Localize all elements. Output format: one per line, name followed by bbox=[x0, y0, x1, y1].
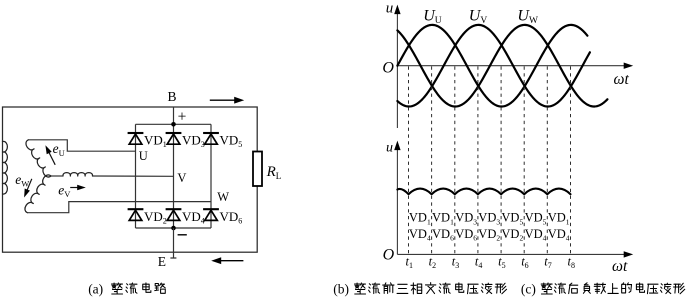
current arrow top (rightward) bbox=[210, 99, 238, 101]
diode VD1 (top-left) bbox=[128, 132, 144, 134]
svg-text:t4: t4 bbox=[475, 255, 482, 271]
svg-text:ωt: ωt bbox=[612, 258, 628, 275]
plot c y-axis arrow bbox=[394, 141, 400, 151]
svg-text:VD4: VD4 bbox=[409, 227, 431, 243]
svg-text:UV: UV bbox=[469, 8, 488, 27]
current arrow bottom (leftward) bbox=[218, 260, 244, 262]
svg-text:eW: eW bbox=[15, 172, 29, 189]
svg-text:RL: RL bbox=[266, 164, 282, 181]
dashed line t2 bbox=[431, 66, 433, 253]
svg-text:eU: eU bbox=[53, 141, 65, 158]
svg-text:t3: t3 bbox=[452, 255, 459, 271]
secondary winding U phase bbox=[26, 140, 51, 177]
svg-text:t5: t5 bbox=[498, 255, 505, 271]
svg-text:t8: t8 bbox=[568, 255, 575, 271]
svg-text:VD5: VD5 bbox=[501, 211, 523, 227]
plot b y-axis arrow bbox=[394, 5, 400, 15]
junction dot - rail bbox=[171, 226, 176, 231]
wire bridge middle column bbox=[173, 124, 175, 228]
svg-text:VD2: VD2 bbox=[144, 209, 167, 226]
secondary winding V phase bbox=[63, 173, 93, 176]
dashed line t7 bbox=[546, 66, 548, 253]
plot b y-axis bbox=[396, 11, 398, 128]
diode VD3 (top-middle) bbox=[166, 132, 182, 134]
svg-text:VD4: VD4 bbox=[525, 227, 547, 243]
wire W phase to bridge bbox=[27, 202, 211, 213]
svg-text:U: U bbox=[139, 149, 148, 163]
svg-text:B: B bbox=[168, 89, 177, 104]
dashed line t5 bbox=[500, 66, 502, 253]
rectified output waveform bbox=[397, 189, 570, 195]
svg-text:t6: t6 bbox=[521, 255, 528, 271]
svg-text:VD1: VD1 bbox=[432, 211, 454, 227]
sine curve U_U bbox=[397, 25, 587, 107]
svg-text:E: E bbox=[158, 254, 166, 269]
svg-text:VD5: VD5 bbox=[220, 133, 243, 150]
plot b x-axis bbox=[397, 65, 627, 67]
diode VD2 (bottom-left) bbox=[128, 208, 144, 210]
caption hanzi: 整流电路 bbox=[111, 283, 165, 294]
svg-text:u: u bbox=[386, 140, 393, 155]
svg-text:VD5: VD5 bbox=[525, 211, 547, 227]
svg-text:u: u bbox=[386, 0, 394, 16]
svg-text:VD1: VD1 bbox=[144, 133, 167, 150]
svg-text:UW: UW bbox=[517, 8, 538, 27]
emf arrow e_W bbox=[26, 179, 32, 194]
svg-text:VD4: VD4 bbox=[182, 209, 205, 226]
wire bridge left column bbox=[135, 124, 137, 228]
svg-text:VD4: VD4 bbox=[548, 227, 570, 243]
svg-text:O: O bbox=[383, 247, 395, 264]
dashed line t4 bbox=[477, 66, 479, 253]
wire bridge right column bbox=[210, 124, 212, 228]
plot b x-axis arrow bbox=[624, 63, 634, 69]
wire V phase to bridge bbox=[93, 175, 174, 177]
svg-text:VD1: VD1 bbox=[409, 211, 431, 227]
svg-text:VD6: VD6 bbox=[220, 209, 243, 226]
wire U phase to bridge bbox=[28, 140, 135, 151]
plot c x-axis arrow bbox=[624, 251, 634, 257]
svg-text:VD3: VD3 bbox=[182, 133, 205, 150]
emf arrow e_U bbox=[48, 150, 56, 165]
caption hanzi: 整流后负载上的电压波形 bbox=[541, 283, 685, 294]
svg-text:(a): (a) bbox=[88, 282, 103, 297]
svg-text:VD6: VD6 bbox=[432, 227, 454, 243]
resistor RL bbox=[253, 152, 262, 187]
svg-text:VD2: VD2 bbox=[501, 227, 523, 243]
sine curve U_V bbox=[397, 25, 590, 107]
wire node B to top rail bbox=[173, 107, 175, 124]
dashed line t1 bbox=[408, 66, 410, 253]
svg-text:VD3: VD3 bbox=[455, 211, 477, 227]
transformer primary winding bbox=[3, 141, 8, 194]
dashed line t8 bbox=[570, 66, 572, 253]
svg-text:VD6: VD6 bbox=[455, 227, 477, 243]
svg-text:+: + bbox=[178, 109, 187, 126]
dashed line t6 bbox=[523, 66, 525, 253]
diode VD5 (top-right) bbox=[203, 132, 219, 134]
outer loop wire box bbox=[3, 107, 258, 252]
svg-text:VD2: VD2 bbox=[478, 227, 500, 243]
caption hanzi: 整流前三相交流电压波形 bbox=[354, 283, 506, 294]
svg-text:t2: t2 bbox=[429, 255, 436, 271]
svg-text:ωt: ωt bbox=[614, 71, 630, 88]
wire bridge bottom rail bbox=[136, 227, 212, 229]
secondary winding W phase bbox=[25, 175, 51, 213]
plot c y-axis bbox=[396, 149, 398, 254]
dashed line t3 bbox=[454, 66, 456, 253]
svg-text:UU: UU bbox=[423, 8, 442, 27]
emf arrow e_V bbox=[70, 187, 81, 189]
wire bridge top rail bbox=[136, 123, 212, 125]
diode VD6 (bottom-right) bbox=[203, 208, 219, 210]
svg-text:(c): (c) bbox=[521, 282, 536, 297]
svg-text:t1: t1 bbox=[406, 255, 413, 271]
diode VD4 (bottom-middle) bbox=[166, 208, 182, 210]
svg-text:t7: t7 bbox=[544, 255, 551, 271]
svg-text:O: O bbox=[382, 60, 394, 77]
svg-text:VD3: VD3 bbox=[478, 211, 500, 227]
plot c x-axis bbox=[397, 253, 627, 255]
svg-text:V: V bbox=[177, 171, 186, 185]
svg-text:VD1: VD1 bbox=[548, 211, 570, 227]
svg-text:(b): (b) bbox=[333, 282, 349, 297]
polarity - label bbox=[178, 234, 187, 236]
wire bottom rail to node E with end tick bbox=[170, 228, 176, 258]
junction dot + rail bbox=[171, 122, 176, 127]
svg-text:eV: eV bbox=[58, 183, 71, 200]
wire star to V coil bbox=[51, 175, 63, 177]
sine curve U_W bbox=[397, 25, 607, 107]
svg-text:W: W bbox=[217, 190, 229, 204]
